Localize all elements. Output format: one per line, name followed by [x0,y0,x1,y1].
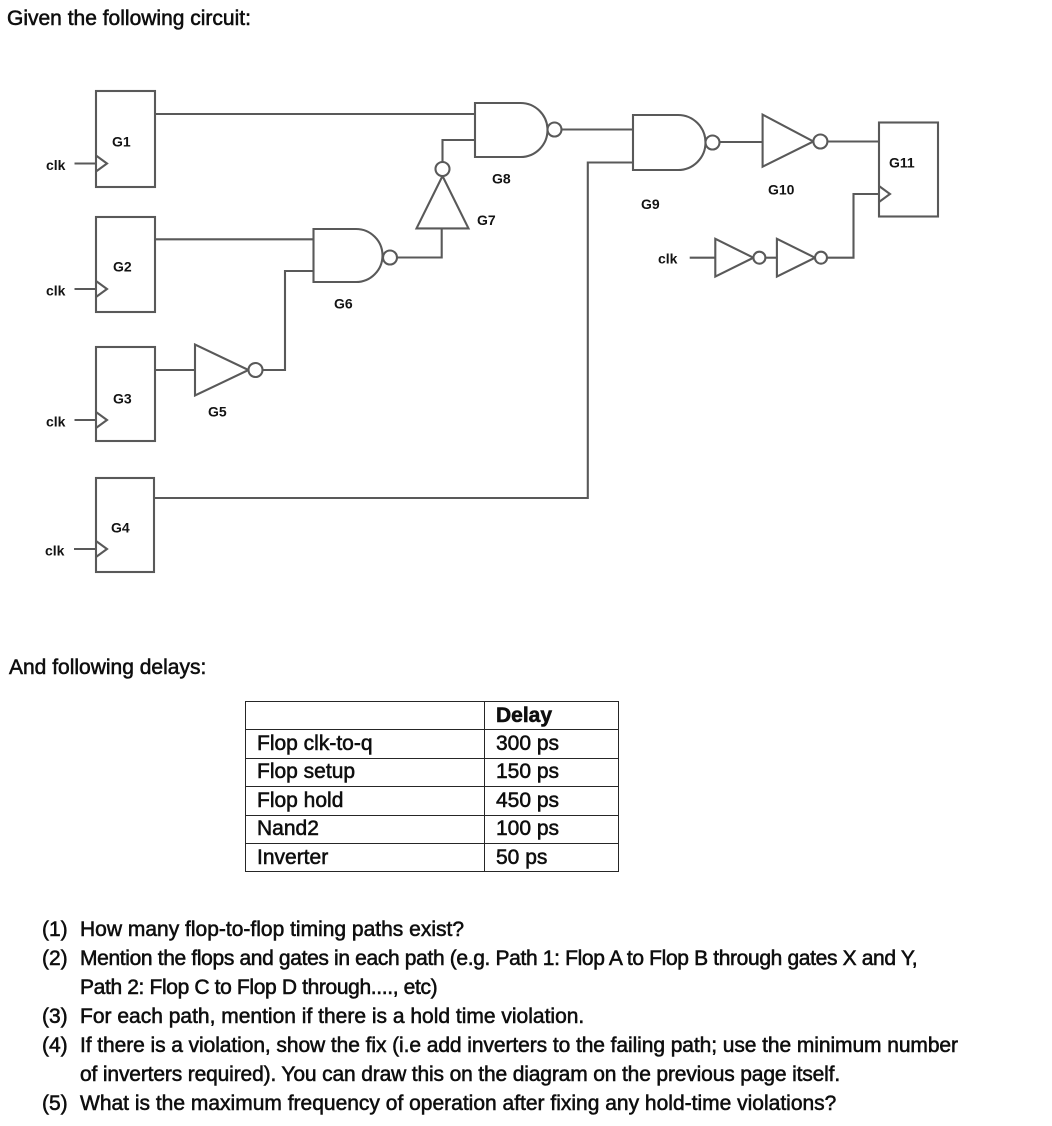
wire clk to inverter G12 input [690,257,716,259]
nand gate G6 [314,229,398,282]
svg-text:G2: G2 [113,259,132,275]
circuit schematic [0,0,1052,640]
title: Given the following circuit: [7,7,251,31]
wire G5 output to G6 input B [263,271,314,370]
svg-text:G7: G7 [477,212,496,228]
svg-text:G6: G6 [334,296,353,312]
wire clk to G3 clock pin [75,419,97,421]
inverter G13 (clock delay stage 2) [777,239,827,277]
svg-text:clk: clk [46,414,66,430]
svg-text:clk: clk [45,543,65,559]
wire G10 output to G11.D [827,140,879,142]
wire clk to G2 clock pin [75,288,97,290]
wire clk to G1 clock pin [75,162,97,164]
svg-text:G8: G8 [492,171,511,187]
svg-text:G5: G5 [208,404,227,420]
wire G8 output to G9 input A [562,128,634,130]
flip-flop G1 [96,91,155,187]
inverter G12 (clock delay stage 1) [715,239,765,277]
caption: And following delays: [9,656,206,680]
wire clk to G4 clock pin [74,548,96,550]
flip-flop G4 [96,478,154,572]
wire G6 output to G7 input [397,228,442,257]
flip-flop G3 [96,347,155,441]
wire G4.Q to G9 input B [154,163,633,499]
svg-text:clk: clk [658,251,678,267]
flip-flop G11 [879,123,938,217]
svg-text:G9: G9 [641,196,660,212]
inverter G5 [195,345,263,396]
wire G9 output to G10 input [720,141,763,143]
wire G3.Q to G5 input [155,369,195,371]
nand gate G9 [633,115,720,170]
svg-text:clk: clk [46,157,66,173]
wire G2.Q to G6 input A [155,238,314,240]
questions list [42,915,958,1118]
svg-text:G10: G10 [768,182,795,198]
wire G13 output to G11 clock pin [827,194,879,258]
svg-text:G1: G1 [112,134,131,150]
svg-text:G11: G11 [889,155,915,171]
wire G7 output to G8 input B [443,140,476,162]
flip-flop G2 [96,217,155,312]
nand gate G8 [475,103,562,157]
svg-text:G4: G4 [111,520,130,536]
wire G1.Q to G8 input A [155,113,475,115]
inverter G7 [417,162,469,228]
svg-text:G3: G3 [113,391,132,407]
inverter G10 [763,115,828,167]
wire G12 output to G13 input [765,257,777,259]
delay table [245,701,619,872]
svg-text:clk: clk [46,283,66,299]
